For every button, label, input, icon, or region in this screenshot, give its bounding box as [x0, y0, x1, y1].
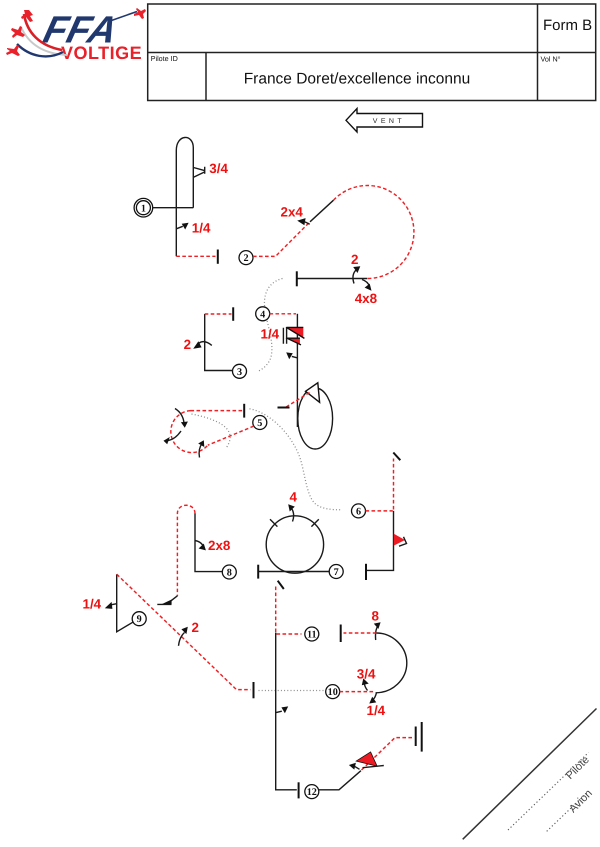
svg-text:6: 6	[356, 506, 361, 517]
svg-text:France Doret/excellence inconn: France Doret/excellence inconnu	[244, 71, 471, 88]
svg-text:1/4: 1/4	[367, 703, 386, 718]
svg-text:10: 10	[328, 687, 338, 698]
svg-text:4: 4	[260, 309, 265, 320]
svg-text:VENT: VENT	[373, 118, 405, 125]
svg-text:Vol N°: Vol N°	[541, 55, 561, 64]
svg-text:1/4: 1/4	[192, 221, 211, 236]
svg-text:VOLTIGE: VOLTIGE	[61, 43, 142, 63]
svg-text:2: 2	[192, 620, 199, 635]
svg-text:7: 7	[334, 567, 339, 578]
svg-text:2x8: 2x8	[208, 538, 231, 553]
svg-text:3/4: 3/4	[209, 161, 228, 176]
svg-text:1: 1	[141, 203, 146, 214]
svg-text:2: 2	[351, 252, 358, 267]
svg-text:8: 8	[372, 609, 380, 624]
svg-text:4x8: 4x8	[355, 291, 378, 306]
svg-text:Pilote ID: Pilote ID	[151, 54, 178, 63]
svg-text:1/4: 1/4	[83, 596, 102, 611]
svg-text:Form B: Form B	[543, 17, 592, 34]
svg-text:4: 4	[290, 490, 298, 505]
svg-text:9: 9	[137, 614, 142, 625]
svg-text:2x4: 2x4	[281, 204, 304, 219]
svg-text:2: 2	[243, 253, 248, 264]
svg-text:12: 12	[307, 787, 317, 798]
svg-text:3/4: 3/4	[357, 667, 376, 682]
svg-text:5: 5	[257, 418, 262, 429]
svg-text:11: 11	[307, 630, 317, 641]
svg-text:3: 3	[237, 367, 242, 378]
svg-text:2: 2	[184, 337, 191, 352]
svg-text:8: 8	[227, 568, 232, 579]
svg-text:1/4: 1/4	[261, 327, 280, 342]
